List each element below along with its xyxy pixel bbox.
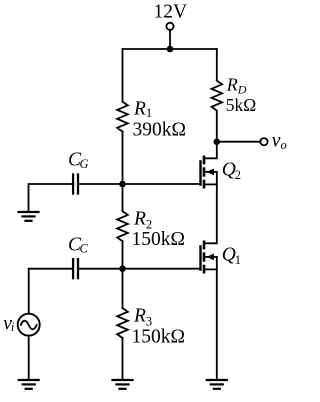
svg-text:150kΩ: 150kΩ: [132, 327, 186, 348]
ground below R3: [113, 380, 133, 389]
resistor RD: [212, 81, 223, 111]
wire top rail: [123, 48, 217, 50]
wire rail to R1: [122, 49, 124, 102]
wire CG left with corner to ground: [29, 184, 74, 212]
wire CC to gate node: [78, 268, 123, 270]
wire Q1 source to ground: [216, 257, 218, 380]
wire Q2 source to Q1 drain: [204, 172, 217, 243]
svg-text:5kΩ: 5kΩ: [226, 95, 257, 115]
source vi: [18, 314, 40, 336]
transistor Q2: [201, 157, 217, 187]
wire R3 to ground: [122, 338, 124, 380]
wire vi to ground: [28, 336, 30, 380]
svg-text:150kΩ: 150kΩ: [132, 229, 186, 250]
node vo junction: [214, 138, 221, 145]
node CC junction: [119, 265, 126, 272]
vo terminal: [260, 138, 267, 145]
svg-text:12V: 12V: [154, 2, 188, 23]
12V supply terminal: [166, 23, 173, 49]
resistor R3: [117, 308, 128, 338]
resistor R1: [117, 102, 128, 132]
wire CG to gate node: [78, 183, 123, 185]
wire CC left with corner to vi: [29, 269, 73, 314]
svg-text:390kΩ: 390kΩ: [133, 120, 187, 141]
wire Q2 gate lead: [123, 183, 200, 185]
transistor Q1: [201, 242, 217, 272]
wire RD to vo node to Q2 drain: [204, 111, 217, 159]
capacitor CC: [73, 259, 78, 278]
wire R2 to CC node to R3: [122, 241, 124, 308]
ground below Q1: [207, 380, 227, 389]
wire rail to RD: [216, 49, 218, 81]
ground below vi: [19, 380, 39, 389]
node CG junction: [119, 181, 126, 188]
junction dot at 12V rail: [167, 46, 174, 53]
capacitor CG: [73, 175, 78, 194]
ground below CG: [19, 212, 39, 221]
resistor R2: [117, 211, 128, 241]
wire Q1 gate lead: [123, 268, 200, 270]
wire R1 to CG node to R2: [122, 132, 124, 212]
wire vo: [217, 141, 261, 143]
